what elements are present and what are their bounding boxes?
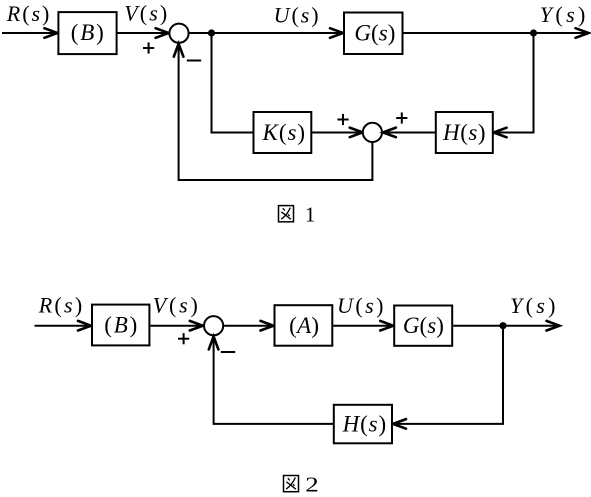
svg-text:U(s): U(s) — [274, 3, 319, 28]
plus sign at S3 — [178, 333, 189, 344]
summing junction S3 — [204, 316, 223, 335]
svg-text:1: 1 — [305, 203, 316, 227]
wire G to output Y d1 — [403, 32, 589, 34]
wire A to block G d2 — [333, 325, 393, 327]
arrow into S1 from feedback — [174, 44, 184, 57]
minus sign at S3 — [221, 351, 235, 353]
block G d1 — [344, 13, 403, 55]
minus sign at S1 — [187, 60, 201, 62]
arrow into block G d1 — [330, 28, 343, 38]
summing junction S2 — [363, 123, 382, 142]
arrow into summing junction S3 — [190, 321, 203, 331]
wire U branch down to block K — [212, 33, 254, 133]
block H d1 — [436, 112, 493, 153]
arrow into block G d2 — [380, 321, 393, 331]
arrow into block H d1 — [494, 128, 507, 138]
plus sign at S1 — [143, 42, 154, 53]
label G(s) d1 — [354, 20, 395, 45]
wire K to summing junction S2 — [311, 132, 362, 134]
svg-text:(A): (A) — [289, 313, 319, 338]
wire S2 feedback to S1 — [179, 45, 373, 180]
svg-text:Y(s): Y(s) — [510, 293, 556, 318]
block K d1 — [254, 112, 312, 153]
wire R(s) to block B — [2, 32, 57, 34]
block A d2 — [275, 305, 333, 346]
arrow into block A — [261, 321, 274, 331]
wire B to summing junction S3 — [150, 325, 202, 327]
arrow into S3 from feedback — [209, 336, 219, 349]
svg-text:H(s): H(s) — [342, 411, 387, 436]
svg-text:G(s): G(s) — [403, 313, 444, 338]
label U(s) d2 — [337, 293, 384, 318]
wire B to summing junction S1 — [117, 32, 169, 34]
wire H feedback to S3 — [214, 338, 333, 424]
svg-text:G(s): G(s) — [354, 20, 395, 45]
arrow into block H d2 — [393, 419, 406, 429]
label (B) d1 — [71, 20, 104, 45]
svg-text:R(s): R(s) — [6, 1, 50, 26]
label K(s) d1 — [262, 120, 306, 145]
node dot Y branch d2 — [499, 322, 506, 329]
block B d1 — [58, 12, 116, 54]
arrow into block B — [44, 28, 57, 38]
svg-text:V(s): V(s) — [153, 293, 198, 318]
wire S1 to block G — [189, 32, 343, 34]
plus sign right of S2 — [396, 112, 407, 123]
caption figure 2 glyph — [284, 476, 299, 492]
arrow into block B d2 — [78, 321, 91, 331]
svg-text:H(s): H(s) — [442, 120, 486, 145]
label U(s) d1 — [274, 3, 319, 28]
block H d2 — [334, 405, 392, 444]
label V(s) d2 — [153, 293, 198, 318]
wire H to summing junction S2 — [383, 132, 436, 134]
caption figure 2 number — [305, 472, 319, 496]
caption figure 1 number — [305, 203, 316, 227]
svg-text:(B): (B) — [104, 313, 137, 338]
svg-text:U(s): U(s) — [337, 293, 384, 318]
label Y(s) d2 — [510, 293, 556, 318]
svg-text:R(s): R(s) — [38, 293, 82, 318]
node dot U branch — [208, 29, 215, 36]
label H(s) d1 — [442, 120, 486, 145]
label (A) d2 — [289, 313, 319, 338]
svg-text:(B): (B) — [71, 20, 104, 45]
svg-text:2: 2 — [305, 472, 319, 496]
block G d2 — [394, 306, 452, 346]
arrow into S2 from H — [383, 128, 396, 138]
label G(s) d2 — [403, 313, 444, 338]
svg-text:K(s): K(s) — [262, 120, 306, 145]
caption figure 1 glyph — [279, 206, 294, 222]
arrow into S2 from K — [350, 128, 363, 138]
arrow output Y(s) d1 — [576, 28, 589, 38]
wire Y branch down to block H d2 — [394, 326, 503, 424]
arrow into summing junction S1 — [156, 28, 169, 38]
svg-text:Y(s): Y(s) — [540, 2, 586, 27]
wire Y branch down to block H d1 — [495, 33, 534, 133]
svg-text:V(s): V(s) — [124, 1, 167, 26]
wire G to output Y d2 — [453, 325, 559, 327]
wire S3 to block A — [223, 325, 273, 327]
node dot Y branch d1 — [530, 29, 537, 36]
label V(s) d1 — [124, 1, 167, 26]
summing junction S1 — [169, 24, 188, 43]
label (B) d2 — [104, 313, 137, 338]
plus sign left of S2 — [337, 114, 348, 125]
label R(s) input signal d2 — [38, 293, 82, 318]
wire R(s) to block B d2 — [35, 325, 92, 327]
label R(s) input signal d1 — [6, 1, 50, 26]
block B d2 — [92, 305, 149, 346]
label H(s) d2 — [342, 411, 387, 436]
arrow output Y(s) d2 — [547, 321, 560, 331]
label Y(s) d1 — [540, 2, 586, 27]
